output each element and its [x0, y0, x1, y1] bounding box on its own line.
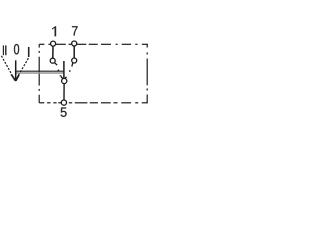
- terminal 1 circle: [51, 41, 56, 46]
- terminal 7 circle: [72, 41, 77, 46]
- terminal label 7: [72, 26, 78, 35]
- frame left side (dash-dot): [38, 44, 40, 103]
- wire terminal 7 to contact 7: [73, 46, 75, 58]
- contact 1 circle: [50, 58, 55, 63]
- terminal 5 circle: [61, 100, 66, 105]
- bridge travel arrow: [61, 61, 66, 80]
- actuator arrow: [11, 60, 19, 81]
- frame top side (dash-dot): [39, 43, 148, 45]
- contact 7 arm dot: [69, 70, 71, 72]
- terminal label 1: [52, 26, 56, 36]
- position label II: [3, 45, 7, 55]
- actuator throw direction I (dashed diagonal): [19, 58, 28, 73]
- common contact circle: [62, 78, 67, 83]
- terminal label 5: [61, 108, 67, 117]
- contact 7 arm stub: [72, 63, 73, 67]
- actuator coupling double line: [16, 71, 64, 73]
- contact 1 arm stub: [55, 63, 58, 65]
- frame right side (dash-dot): [146, 44, 148, 103]
- position label I: [28, 47, 30, 57]
- wire common contact to terminal 5: [63, 84, 65, 100]
- contact 1 arm dot: [58, 70, 60, 72]
- actuator throw direction II (dashed diagonal): [1, 56, 11, 74]
- contact 1 arm dash: [60, 75, 62, 78]
- contact 7 circle: [72, 58, 77, 63]
- frame bottom side (dash-dot): [39, 102, 148, 104]
- position label 0: [14, 44, 19, 54]
- wire terminal 1 to contact 1: [52, 46, 54, 59]
